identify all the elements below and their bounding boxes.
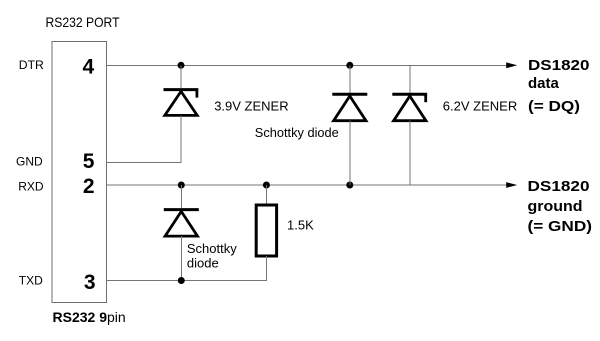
svg-text:2: 2 [83, 175, 95, 198]
wire TXD pin 3 to resistor bottom [106, 280, 267, 282]
svg-text:Schottky: Schottky [187, 241, 237, 256]
label 3.9V ZENER [214, 99, 288, 114]
svg-text:RXD: RXD [18, 180, 44, 194]
wire upper schottky anode to ground line [349, 121, 351, 185]
pin 3 number [84, 271, 96, 294]
label DS1820 ground line 3 [528, 218, 593, 235]
pin 4 number [82, 56, 94, 79]
label 6.2V ZENER [443, 99, 517, 114]
svg-text:6.2V ZENER: 6.2V ZENER [443, 99, 517, 114]
svg-text:4: 4 [82, 56, 94, 79]
label DS1820 data line 2 [528, 75, 560, 92]
junction dot RXD / lower schottky [178, 182, 185, 189]
svg-text:RS232 PORT: RS232 PORT [46, 14, 120, 30]
svg-text:GND: GND [16, 155, 43, 169]
label diode (lower, line 2) [187, 256, 219, 271]
arrow to DS1820 data [506, 62, 517, 68]
pin 2 number [83, 175, 95, 198]
wire lower schottky anode to TXD line [180, 236, 182, 280]
junction dot RXD / resistor [263, 182, 270, 189]
label DS1820 data line 3 [528, 98, 580, 115]
arrow to DS1820 ground [506, 182, 517, 188]
label RS232 9pin [53, 309, 126, 325]
pin label GND [16, 155, 43, 169]
svg-text:1.5K: 1.5K [287, 218, 314, 233]
label DS1820 ground line 1 [528, 178, 590, 195]
svg-text:3.9V ZENER: 3.9V ZENER [214, 99, 288, 114]
junction dot TXD / lower schottky [178, 277, 185, 284]
wire GND pin 5 to zener D1 [106, 162, 181, 164]
label DS1820 data line 1 [528, 57, 590, 74]
label Schottky diode (upper) [255, 125, 339, 140]
pin 5 number [83, 150, 95, 173]
junction dot DTR / 3.9V zener [178, 62, 185, 69]
pin label DTR [19, 58, 44, 72]
junction dot RXD / upper schottky [346, 182, 353, 189]
svg-text:DS1820: DS1820 [528, 178, 590, 195]
svg-text:RS232 9pin: RS232 9pin [53, 309, 126, 325]
svg-text:diode: diode [187, 256, 219, 271]
wire resistor bottom to TXD line [265, 256, 267, 281]
svg-text:ground: ground [528, 198, 583, 215]
RS232 port connector box [52, 41, 106, 302]
wire DTR net from pin 4 to DS1820 data arrow [106, 64, 507, 66]
schottky diode D4 lower [164, 210, 199, 237]
pin label RXD [18, 180, 44, 194]
svg-text:5: 5 [83, 150, 95, 173]
wire zener D3 cathode to DTR line [409, 65, 411, 93]
wire RXD ground net from pin 2 to DS1820 ground arrow [106, 184, 507, 186]
zener diode D1 3.9V [164, 90, 199, 116]
wire zener D1 anode down to GND line [180, 115, 182, 162]
label Schottky (lower, line 1) [187, 241, 237, 256]
wire zener D3 anode to ground line [409, 121, 411, 185]
resistor R1 1.5K body [256, 205, 276, 256]
svg-text:DS1820: DS1820 [528, 57, 590, 74]
wire upper schottky cathode to DTR line [349, 65, 351, 93]
svg-text:DTR: DTR [19, 58, 44, 72]
label DS1820 ground line 2 [528, 198, 583, 215]
wire lower schottky cathode to RXD line [180, 185, 182, 208]
junction dot DTR / upper schottky [346, 62, 353, 69]
svg-text:data: data [528, 75, 560, 92]
svg-text:Schottky diode: Schottky diode [255, 125, 339, 140]
pin label TXD [19, 273, 43, 287]
wire resistor top to RXD line [265, 185, 267, 205]
svg-text:3: 3 [84, 271, 96, 294]
zener diode D3 6.2V [392, 94, 427, 121]
schottky diode D2 upper [332, 94, 367, 121]
label 1.5K [287, 218, 314, 233]
wire zener D1 cathode to DTR line [180, 65, 182, 88]
svg-text:(= GND): (= GND) [528, 218, 593, 235]
svg-text:(= DQ): (= DQ) [528, 98, 580, 115]
svg-text:TXD: TXD [19, 273, 43, 287]
label RS232 PORT [46, 14, 120, 30]
